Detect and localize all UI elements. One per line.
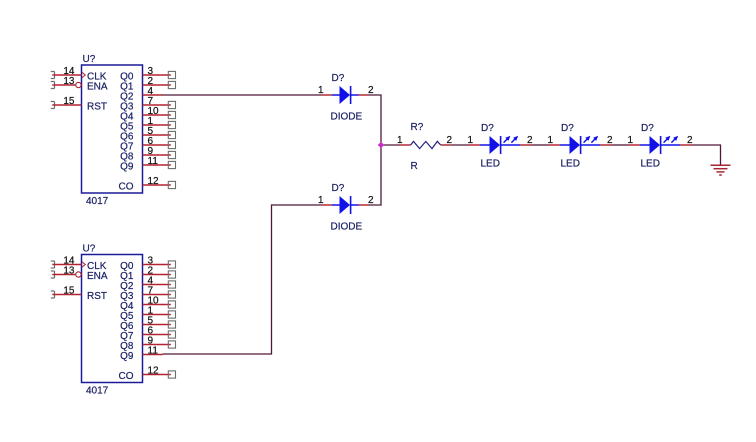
- svg-text:DIODE: DIODE: [331, 112, 363, 123]
- svg-text:U?: U?: [83, 244, 96, 255]
- svg-text:Q9: Q9: [120, 351, 134, 362]
- svg-text:DIODE: DIODE: [331, 222, 363, 233]
- svg-text:Q9: Q9: [120, 162, 134, 173]
- svg-text:4017: 4017: [86, 196, 109, 207]
- svg-text:RST: RST: [87, 291, 107, 302]
- svg-text:13: 13: [63, 76, 75, 87]
- svg-text:13: 13: [63, 266, 75, 277]
- svg-text:LED: LED: [641, 159, 660, 170]
- svg-text:RST: RST: [87, 102, 107, 113]
- svg-text:LED: LED: [481, 159, 500, 170]
- svg-text:R?: R?: [411, 122, 424, 133]
- svg-text:ENA: ENA: [87, 82, 108, 93]
- svg-text:15: 15: [63, 286, 75, 297]
- svg-text:D?: D?: [561, 123, 574, 134]
- svg-text:2: 2: [368, 195, 374, 206]
- svg-text:4017: 4017: [86, 386, 109, 397]
- svg-text:D?: D?: [332, 183, 345, 194]
- svg-text:15: 15: [63, 96, 75, 107]
- svg-text:D?: D?: [332, 73, 345, 84]
- svg-text:R: R: [411, 161, 418, 172]
- svg-text:LED: LED: [561, 159, 580, 170]
- svg-text:D?: D?: [481, 123, 494, 134]
- svg-text:ENA: ENA: [87, 271, 108, 282]
- svg-text:2: 2: [368, 85, 374, 96]
- svg-text:CO: CO: [119, 371, 134, 382]
- svg-text:D?: D?: [641, 123, 654, 134]
- svg-text:CO: CO: [119, 182, 134, 193]
- svg-text:U?: U?: [83, 54, 96, 65]
